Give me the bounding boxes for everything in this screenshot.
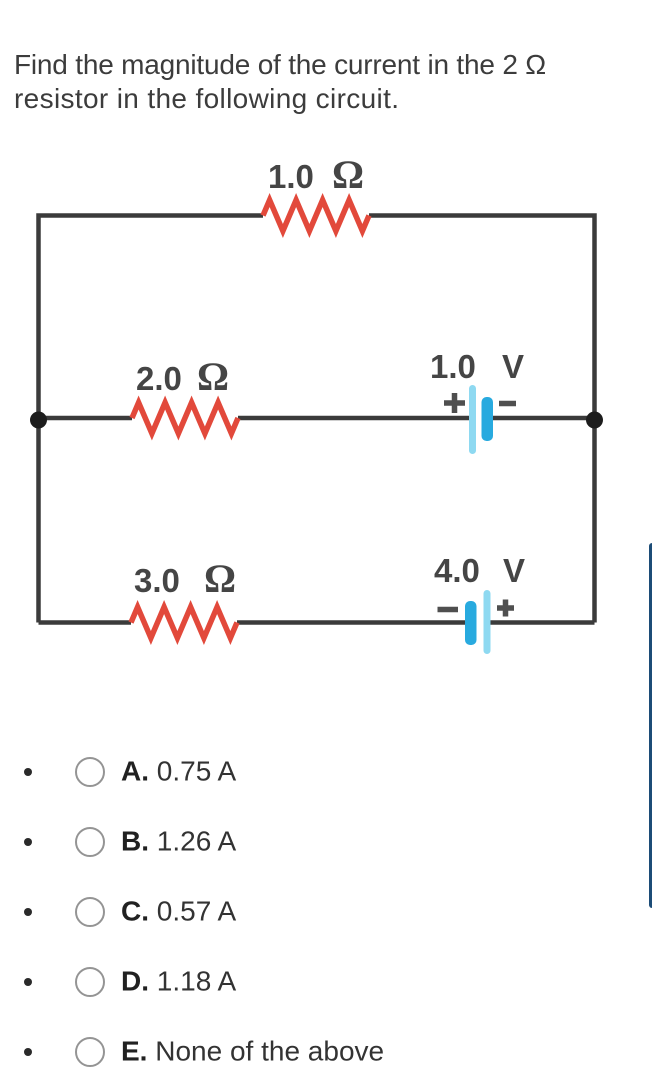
svg-text:1.0V: 1.0V xyxy=(430,348,524,385)
battery B2 minus sign xyxy=(438,607,459,613)
battery B1 short thick plate (-) right xyxy=(482,397,494,441)
wire: middle wire right segment xyxy=(488,416,595,421)
wire: bottom wire centre segment xyxy=(237,620,470,625)
svg-text:1.0Ω: 1.0Ω xyxy=(268,152,364,197)
battery B1 plus sign xyxy=(444,393,465,413)
option E xyxy=(0,1035,652,1069)
resistor R2 2.0 ohm xyxy=(132,403,238,434)
node junction left xyxy=(30,412,47,429)
battery B2 4.0 V : short thick plate (-) left xyxy=(465,601,477,645)
scrollbar indicator xyxy=(649,543,652,908)
wire: bottom wire right segment xyxy=(487,620,595,625)
wire: middle wire left segment xyxy=(39,416,133,421)
battery B2 plus sign xyxy=(497,600,514,617)
wire: middle wire centre segment xyxy=(238,416,472,421)
resistor R1 1.0 ohm xyxy=(263,200,369,231)
circuit schematic xyxy=(0,0,652,700)
svg-text:4.0V: 4.0V xyxy=(434,552,525,589)
resistor R3 3.0 ohm xyxy=(131,607,237,638)
node junction right xyxy=(586,412,603,429)
svg-text:2.0Ω: 2.0Ω xyxy=(136,354,229,399)
question text xyxy=(14,48,546,116)
wire: left vertical lower xyxy=(36,418,41,623)
wire: right vertical lower xyxy=(592,418,597,623)
option B xyxy=(0,825,652,859)
wire: top wire right segment + right vertical upper xyxy=(369,216,595,419)
battery B1 minus sign xyxy=(499,401,516,407)
option A xyxy=(0,755,652,789)
svg-text:3.0Ω: 3.0Ω xyxy=(134,556,236,601)
option C xyxy=(0,895,652,929)
wire: bottom wire left segment xyxy=(39,620,132,625)
wire: top-left vertical + top wire left segment xyxy=(39,216,264,419)
option D xyxy=(0,965,652,999)
battery B2 long thin plate (+) right xyxy=(484,590,491,654)
battery B1 1.0 V : long thin plate (+) left xyxy=(469,385,476,454)
